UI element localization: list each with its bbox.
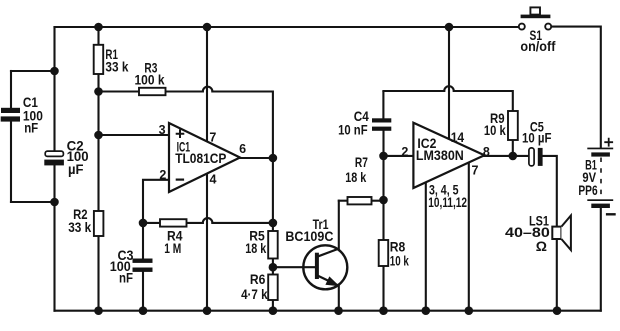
svg-text:TL081CP: TL081CP (175, 150, 226, 166)
svg-text:10 nF: 10 nF (338, 121, 368, 137)
label C1 (23, 94, 43, 135)
wire C4 top lead (382, 92, 384, 118)
label S1 (520, 27, 555, 54)
wire C4 to hop (383, 90, 444, 92)
svg-text:2: 2 (401, 145, 408, 159)
svg-text:10 µF: 10 µF (522, 130, 552, 146)
label R8 (390, 238, 409, 268)
svg-text:7: 7 (472, 163, 479, 177)
wire hop over IC1 pin7 line (203, 87, 213, 92)
label C5 (522, 118, 552, 145)
svg-text:4: 4 (210, 173, 217, 187)
label R2 (68, 206, 91, 235)
wire hop over IC2 pin14 line (444, 86, 454, 91)
wire IC2 pin14 supply (448, 27, 450, 140)
svg-text:4·7 k: 4·7 k (241, 286, 268, 302)
svg-text:3: 3 (159, 123, 166, 137)
node top rail / IC1 pin7 (203, 23, 212, 32)
wire R7 right lead (372, 200, 384, 202)
resistor R1 body (94, 45, 104, 74)
svg-text:10,11,12: 10,11,12 (428, 194, 467, 210)
wire S1 right to battery (551, 27, 601, 148)
wire C1 top branch (11, 70, 55, 72)
loudspeaker LS1 (552, 216, 571, 251)
label R4 (164, 228, 182, 256)
label C4 (338, 108, 369, 137)
wire IC2 pin7 ground (468, 163, 470, 311)
svg-text:100 k: 100 k (135, 71, 165, 87)
wire R6 bottom lead (272, 300, 274, 311)
node top rail / IC2 pin14 (445, 23, 454, 32)
node ground rail R6 (269, 306, 278, 315)
wire R4 to R5 node (212, 222, 273, 224)
node IC2 output / R9 (509, 152, 518, 161)
label B1 (578, 157, 597, 199)
wire hop to R9 top (454, 91, 513, 111)
wire Tr1 emitter vertical (338, 286, 340, 311)
svg-text:R6: R6 (250, 271, 266, 287)
resistor R5 body (268, 231, 278, 259)
svg-text:18 k: 18 k (345, 169, 366, 185)
wire output node to R5 (272, 158, 274, 231)
wire C5 to LS1 corner (543, 156, 557, 227)
label LS1 (505, 213, 550, 254)
svg-text:18 k: 18 k (245, 240, 266, 256)
wire bottom ground rail (55, 310, 601, 312)
node R7 / R8 (379, 196, 388, 205)
label IC1 (159, 123, 247, 187)
label IC2 (401, 129, 489, 210)
label Tr1 (285, 216, 333, 244)
capacitor C5 plates (electrolytic) (529, 148, 543, 166)
wire IC2 pins 3,4,5,10,11,12 ground (425, 182, 427, 310)
resistor R8 body (379, 240, 389, 266)
switch S1 on/off (519, 7, 551, 29)
battery B1 (587, 138, 615, 216)
node IC1 output (269, 154, 278, 163)
node ground rail LS1 (553, 306, 562, 315)
node ground rail IC2 pins (422, 306, 431, 315)
svg-text:14: 14 (451, 129, 465, 145)
svg-text:33 k: 33 k (105, 59, 128, 75)
node R1 bottom / R3 (94, 87, 103, 96)
wire battery negative to ground rail (600, 208, 602, 311)
svg-text:R7: R7 (355, 154, 368, 170)
label R3 (135, 60, 165, 88)
svg-text:8: 8 (483, 145, 490, 159)
wire IC1 pin7 supply (206, 27, 208, 142)
svg-text:2: 2 (159, 168, 166, 182)
wire IC1 output pin6 (240, 157, 273, 159)
wire R3 to feedback corner (212, 92, 273, 159)
resistor R4 body (160, 219, 187, 226)
svg-text:nF: nF (24, 119, 38, 135)
wire R4 left lead (143, 222, 160, 224)
node IC1 pin3 tap (94, 131, 103, 140)
svg-text:10 k: 10 k (390, 253, 409, 269)
label C2 (67, 137, 89, 177)
node ground rail C3 (139, 306, 148, 315)
wire left vertical (C2 branch) upper (53, 27, 55, 151)
resistor R7 body (348, 197, 372, 204)
node ground rail IC1 pin4 (203, 306, 212, 315)
wire R7 left lead (339, 200, 348, 202)
label R6 (241, 271, 268, 302)
resistor R9 body (508, 111, 518, 140)
wire C3 bottom lead (142, 272, 144, 311)
wire R2 bottom lead (97, 236, 99, 311)
transistor Q1 Tr1 BC109C (303, 245, 347, 289)
node top rail / R1 (94, 23, 103, 32)
svg-text:33 k: 33 k (68, 219, 91, 235)
op-amp U2 IC2 LM380N triangle (413, 123, 484, 188)
wire top supply rail (55, 26, 519, 28)
op-amp U1 IC1 TL081CP triangle (169, 123, 240, 192)
wire hop over IC1 pin4 line (203, 218, 213, 223)
wire R8 top lead (382, 200, 384, 240)
wire R3 right lead to hop (166, 90, 203, 92)
svg-text:7: 7 (209, 130, 216, 144)
capacitor C4 plates (372, 118, 391, 131)
node R4 / C3 (139, 219, 148, 228)
wire C4 bottom lead to IC2 pin2 node (382, 131, 384, 200)
svg-text:µF: µF (68, 161, 84, 177)
wire R3 left lead (99, 90, 140, 92)
wire R9 bottom lead (512, 140, 514, 156)
wire R1 top lead (97, 27, 99, 45)
wire IC2 pin2 input (384, 155, 415, 157)
wire C3 top lead (142, 223, 144, 259)
label R1 (105, 46, 128, 75)
node R4 / R5 (269, 219, 278, 228)
svg-text:10 k: 10 k (484, 122, 506, 138)
wire IC1 pin4 ground (206, 174, 208, 311)
node C1 / C2 bottom (50, 198, 59, 207)
wire Tr1 base lead (273, 266, 315, 268)
wire LS1 bottom lead (556, 239, 558, 311)
node ground rail R2 (94, 306, 103, 315)
wire IC2 output pin8 (484, 155, 528, 157)
svg-text:1 M: 1 M (164, 240, 181, 256)
wire C1 upper lead (10, 71, 12, 109)
label R7 (345, 154, 368, 185)
svg-text:BC109C: BC109C (285, 228, 333, 244)
label C3 (110, 247, 134, 286)
svg-text:PP6: PP6 (578, 182, 597, 198)
wire C1 bottom branch (11, 201, 55, 203)
wire IC1 pin2 input (143, 180, 170, 223)
wire R5-R6 junction (272, 259, 274, 275)
svg-text:LM380N: LM380N (416, 147, 464, 163)
wire R1-R2 vertical (97, 74, 99, 211)
node R5 / R6 / base (269, 263, 278, 272)
resistor R2 body (94, 211, 104, 236)
node ground rail IC2 pin7 (465, 306, 474, 315)
resistor R3 body (139, 88, 166, 95)
wire Tr1 collector vertical (338, 201, 340, 249)
svg-text:nF: nF (119, 269, 133, 285)
node ground rail R8 (379, 306, 388, 315)
svg-text:on/off: on/off (520, 38, 555, 54)
label R9 (484, 110, 506, 138)
capacitor C3 plates (133, 259, 153, 272)
wire R4 right lead to hop (187, 222, 203, 224)
resistor R6 body (268, 275, 278, 301)
svg-text:Ω: Ω (536, 238, 547, 254)
wire C1 lower lead (10, 121, 12, 202)
wire IC1 pin3 input (99, 134, 171, 136)
wire R8 bottom lead (382, 266, 384, 311)
label R5 (245, 228, 266, 256)
svg-text:6: 6 (239, 142, 246, 156)
node ground rail emitter (334, 306, 343, 315)
node C4 / IC2 pin2 (379, 152, 388, 161)
node C1 / C2 top (50, 67, 59, 76)
capacitor C2 plates (electrolytic) (44, 151, 64, 165)
capacitor C1 plates (1, 108, 20, 122)
wire left vertical (C2 branch) lower (53, 164, 55, 311)
